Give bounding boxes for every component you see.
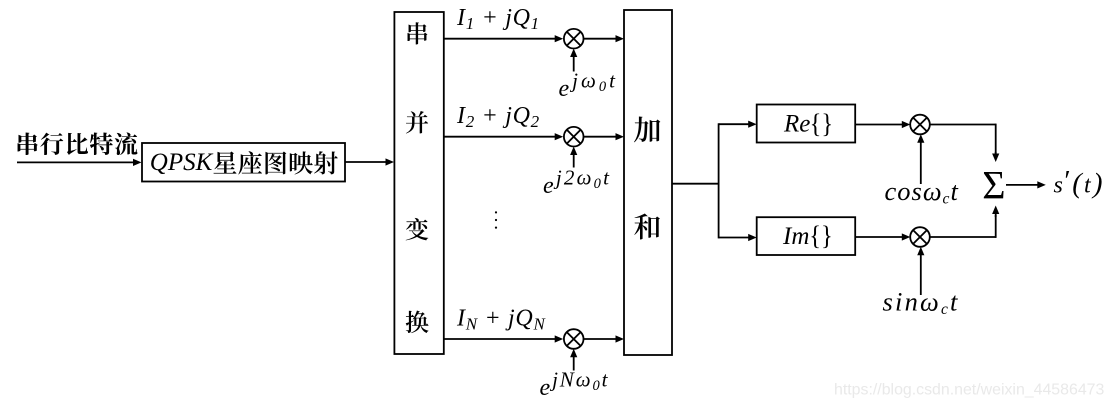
wire: multiplier M3 to summer <box>584 335 625 342</box>
svg-text:Σ: Σ <box>982 162 1005 207</box>
svg-text:sinωct: sinωct <box>883 287 960 319</box>
svg-text:ejω0t: ejω0t <box>559 69 618 103</box>
svg-text:QPSK: QPSK <box>150 149 214 176</box>
wire: carrier up into M2 <box>570 147 577 168</box>
svg-text:https://blog.csdn.net/weixin_4: https://blog.csdn.net/weixin_44586473 <box>834 382 1104 399</box>
multiplier M4 <box>910 115 930 135</box>
multiplier M3 <box>564 329 584 349</box>
label: s'(t) output <box>1054 166 1105 200</box>
svg-text:Im: Im <box>782 223 809 250</box>
label: serial bit stream 串行比特流 <box>18 132 138 155</box>
multiplier M1 <box>564 29 584 49</box>
wire: branch 1 from S/P output <box>444 35 563 42</box>
svg-text:cosωct: cosωct <box>885 176 959 208</box>
svg-text:{}: {} <box>810 109 834 139</box>
label: sin wc t <box>883 287 960 319</box>
label: IN+jQN <box>456 306 546 334</box>
box U1: QPSK constellation mapper <box>142 143 345 182</box>
label: exponential carrier N <box>540 368 610 402</box>
multiplier M2 <box>564 127 584 147</box>
wire: multiplier M1 to summer <box>584 35 625 42</box>
svg-text:{}: {} <box>809 221 833 251</box>
label: exponential carrier 2 <box>543 166 611 200</box>
box U5: Im{} <box>757 217 856 255</box>
box U2: serial-to-parallel converter 串并变换 <box>394 12 443 354</box>
wire: Re to multiplier M4 <box>855 121 910 128</box>
wire: branch N from S/P output <box>444 335 563 342</box>
wire: sin carrier into M5 <box>917 247 924 295</box>
wire: carrier up into M1 <box>570 49 577 72</box>
box U4: Re{} <box>757 105 856 143</box>
wire: M5 output up to sigma <box>930 206 1000 238</box>
svg-text:Re: Re <box>783 110 810 137</box>
wire: Im to multiplier M5 <box>855 233 910 240</box>
label: vertical ellipsis between branches <box>495 211 497 228</box>
wire: carrier up into M3 <box>570 349 577 371</box>
label: I2+jQ2 <box>456 103 540 131</box>
svg-text:IN + jQN: IN + jQN <box>456 306 546 334</box>
wire: multiplier M2 to summer <box>584 133 625 140</box>
wire: to Im block <box>719 234 757 241</box>
wire: M4 output down to sigma <box>930 124 1000 162</box>
wire: split vertical <box>718 123 720 238</box>
multiplier M5 <box>910 227 930 247</box>
svg-text:I2 + jQ2: I2 + jQ2 <box>456 103 540 131</box>
watermark <box>834 382 1104 399</box>
svg-text:I1 + jQ1: I1 + jQ1 <box>456 5 540 33</box>
summation sigma <box>982 162 1005 207</box>
label: I1+jQ1 <box>456 5 540 33</box>
box U3: summer 加和 <box>624 10 672 355</box>
wire: input arrow into QPSK mapper <box>17 159 142 166</box>
wire: branch 2 from S/P output <box>444 133 563 140</box>
svg-text:ej2ω0t: ej2ω0t <box>543 166 611 200</box>
label: cos wc t <box>885 176 959 208</box>
label: exponential carrier 1 <box>559 69 618 103</box>
wire: cos carrier into M4 <box>917 134 924 184</box>
svg-text:s′(t): s′(t) <box>1054 166 1105 200</box>
wire: to Re block <box>719 121 757 128</box>
wire: sigma to output <box>1006 181 1046 188</box>
wire: summer output <box>672 183 719 185</box>
svg-text:ejNω0t: ejNω0t <box>540 368 610 402</box>
wire: QPSK mapper to S/P converter <box>345 158 394 165</box>
